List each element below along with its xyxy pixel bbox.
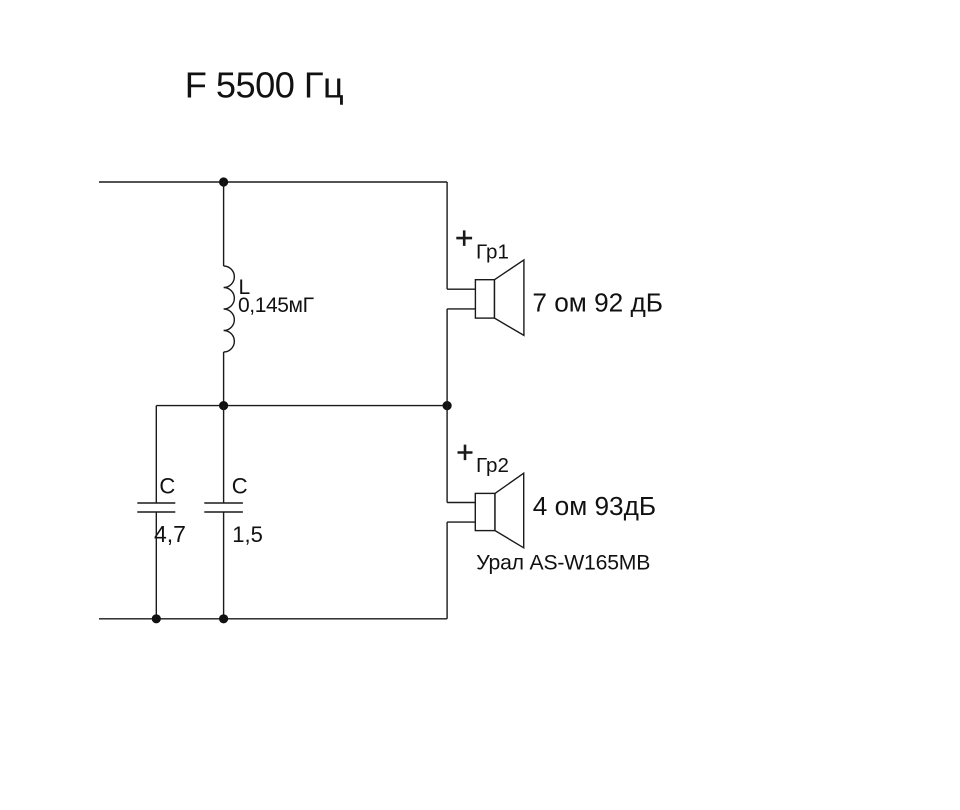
wire: right bus middle segment xyxy=(446,309,448,503)
wire: C1 bottom lead xyxy=(155,512,157,619)
wire: speaker Гр1 positive lead xyxy=(447,288,475,290)
wire: speaker Гр2 positive lead xyxy=(447,502,475,504)
svg-text:0,145мГ: 0,145мГ xyxy=(238,294,314,317)
wire: C1 top lead xyxy=(155,406,157,503)
node: middle junction dot (inductor / C2) xyxy=(219,401,228,410)
speaker Гр1 magnet body xyxy=(475,280,494,318)
svg-text:1,5: 1,5 xyxy=(232,522,263,547)
svg-text:Гр2: Гр2 xyxy=(476,454,509,477)
speaker Гр2 magnet body xyxy=(475,493,495,530)
top wire xyxy=(99,181,447,183)
speaker Гр2 cone xyxy=(495,473,524,548)
svg-text:4 ом 93дБ: 4 ом 93дБ xyxy=(533,491,656,521)
node: middle-right junction dot xyxy=(443,401,452,410)
wire: inductor bottom lead xyxy=(223,352,225,406)
svg-text:F 5500 Гц: F 5500 Гц xyxy=(185,65,344,106)
wire: C2 bottom lead xyxy=(223,512,225,619)
bottom wire xyxy=(99,618,447,620)
speaker Гр1 cone xyxy=(495,260,524,336)
svg-text:C: C xyxy=(232,474,248,499)
polarity + (Гр1) xyxy=(456,230,472,246)
inductor L coil xyxy=(224,266,235,352)
wire: inductor top lead xyxy=(223,182,225,266)
wire: right bus lower segment xyxy=(446,522,448,619)
capacitor C1 plates xyxy=(137,503,175,512)
svg-text:C: C xyxy=(159,474,175,499)
svg-text:4,7: 4,7 xyxy=(154,521,186,547)
svg-text:Урал AS-W165MB: Урал AS-W165MB xyxy=(476,551,650,574)
middle wire xyxy=(156,405,447,407)
wire: speaker Гр1 negative lead xyxy=(447,308,475,310)
node: bottom junction dot (C2) xyxy=(219,614,228,623)
polarity + (Гр2) xyxy=(458,445,473,461)
node: bottom junction dot (C1) xyxy=(152,614,161,623)
svg-text:Гр1: Гр1 xyxy=(476,240,509,263)
wire: speaker Гр2 negative lead xyxy=(447,521,475,523)
node: top junction dot xyxy=(219,177,228,186)
wire: right bus upper segment xyxy=(446,182,448,289)
svg-text:7 ом 92 дБ: 7 ом 92 дБ xyxy=(532,288,663,318)
capacitor C2 plates xyxy=(204,503,243,512)
wire: C2 top lead xyxy=(223,406,225,503)
